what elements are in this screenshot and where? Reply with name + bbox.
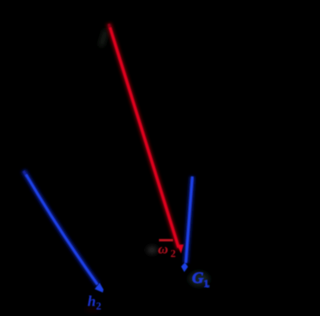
label h2 (blue, left) xyxy=(88,294,102,313)
label G1 (blue, right) xyxy=(192,270,209,290)
vector omega2 red line glow xyxy=(109,24,179,250)
arrowhead of right blue vector xyxy=(181,263,188,273)
svg-text:G: G xyxy=(192,270,204,287)
noise smudge under left blue label xyxy=(86,308,99,311)
label omega-bar-2 (red) xyxy=(158,239,176,260)
svg-text:h: h xyxy=(88,294,96,310)
arrowhead of left blue vector xyxy=(95,283,104,293)
left blue vector line glow xyxy=(24,171,99,286)
noise smudge around right blue label xyxy=(189,272,209,286)
arrowhead of red vector omega2 xyxy=(177,244,184,253)
small blue fleck below-right of label G1 xyxy=(207,285,210,288)
noise smudge left of red label xyxy=(147,247,157,254)
right blue vector line glow xyxy=(186,177,193,264)
left blue vector line dim top stub xyxy=(24,171,28,177)
noise smudge near top of red vector xyxy=(101,30,106,46)
vector omega2 red line core xyxy=(110,28,179,248)
right blue vector line core xyxy=(186,177,193,264)
svg-text:ω: ω xyxy=(158,243,168,258)
svg-text:2: 2 xyxy=(96,302,101,313)
svg-text:2: 2 xyxy=(171,249,176,260)
svg-text:1: 1 xyxy=(204,279,209,290)
vector omega2 red line dim top stub xyxy=(109,24,110,29)
left blue vector line core xyxy=(26,175,98,285)
